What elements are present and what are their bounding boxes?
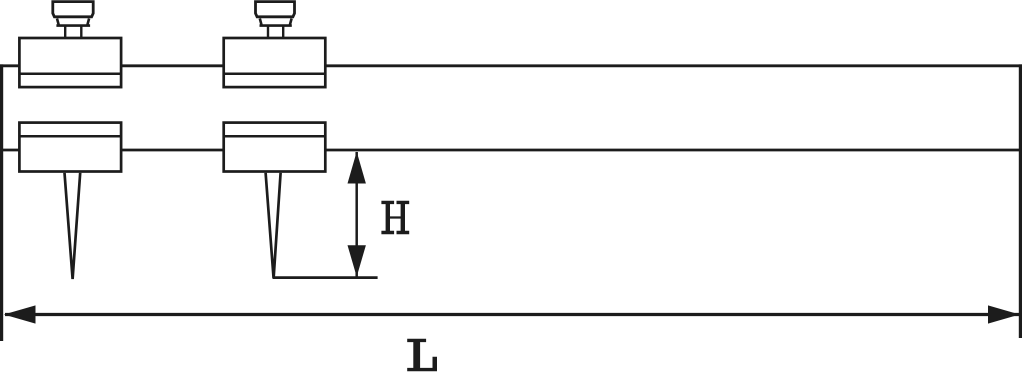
label H	[381, 201, 409, 235]
clamp A lower slot line	[19, 135, 121, 138]
dimension L left arrowhead	[4, 305, 36, 323]
needle tip reference line	[273, 276, 378, 279]
clamp B scriber needle	[266, 173, 281, 279]
right extension line	[1019, 64, 1022, 338]
dimension H line	[355, 152, 358, 277]
clamp B upper body	[224, 38, 326, 87]
clamp B upper slot line	[224, 73, 326, 76]
clamp A upper slot line	[19, 73, 121, 76]
clamp B knob stem	[268, 26, 283, 37]
clamp B lower slot line	[224, 135, 326, 138]
dimension L right arrowhead	[988, 305, 1020, 323]
label L	[407, 339, 437, 372]
clamp A knob collar	[56, 19, 90, 26]
clamp A lower body	[19, 123, 121, 172]
dimension L line	[5, 313, 1019, 316]
dimension H upper arrowhead	[348, 152, 366, 184]
clamp A knob stem	[65, 26, 81, 37]
beam top line	[0, 64, 1022, 67]
left extension line	[0, 64, 3, 341]
clamp B knob cap	[256, 2, 295, 17]
clamp A upper body	[19, 38, 121, 87]
beam bottom line	[0, 149, 1022, 152]
clamp B lower body	[224, 123, 326, 172]
clamp A knob cap	[53, 2, 93, 17]
clamp A scriber needle	[65, 173, 81, 279]
dimension H lower arrowhead	[348, 245, 366, 277]
clamp B knob collar	[260, 19, 292, 26]
